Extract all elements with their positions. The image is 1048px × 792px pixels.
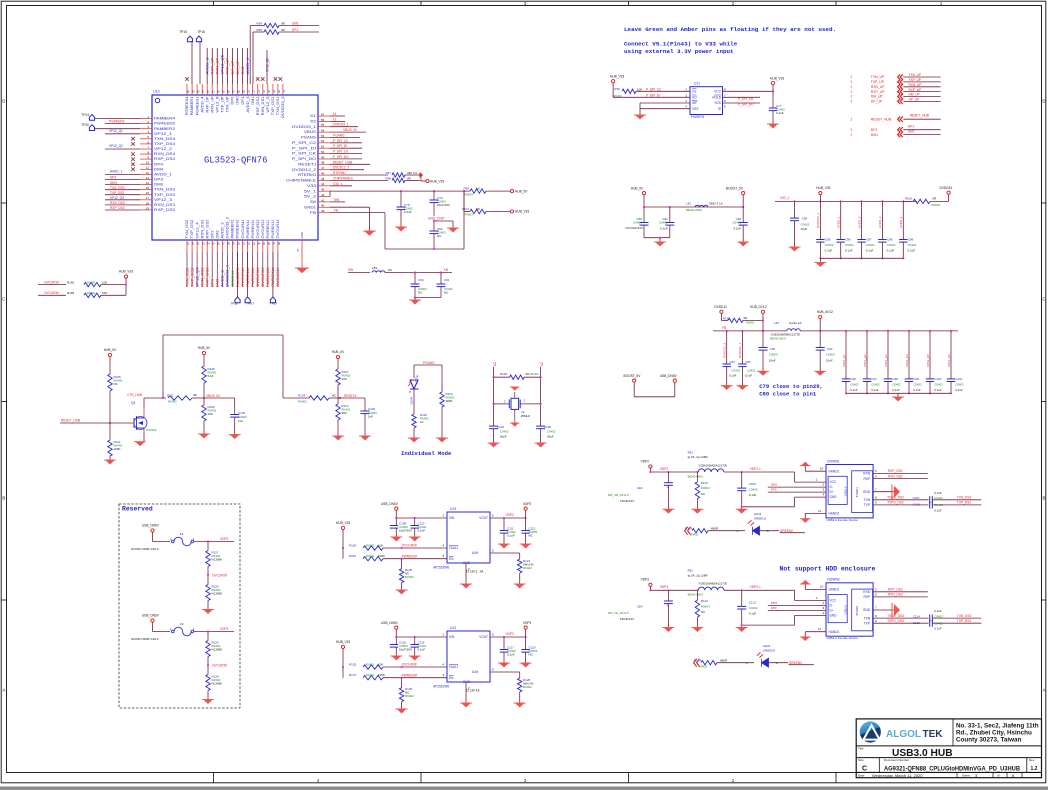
wire pin50 P_SPI_CK	[330, 153, 362, 155]
svg-text:DM3: DM3	[154, 183, 163, 187]
zone tick marks top and bottom	[213, 1, 215, 5]
svg-text:EN: EN	[449, 557, 454, 561]
svg-text:0.1uF: 0.1uF	[892, 388, 900, 392]
svg-text:OVCUR3#: OVCUR3#	[212, 663, 227, 667]
wire RXN RXP_DS2	[873, 473, 928, 475]
svg-text:A: A	[1043, 688, 1046, 693]
svg-text:RXP_DS3: RXP_DS3	[154, 208, 175, 212]
VOUT wire	[490, 636, 526, 638]
resistor R109	[203, 398, 205, 405]
svg-text:C0402: C0402	[845, 243, 854, 247]
svg-text:TEK: TEK	[923, 729, 944, 740]
svg-text:44: 44	[321, 182, 325, 186]
svg-text:X1: X1	[493, 362, 497, 366]
resistor R113	[337, 398, 339, 404]
svg-text:10K: 10K	[378, 663, 383, 667]
svg-text:C94: C94	[730, 360, 736, 364]
GND pin4 return wire	[795, 614, 827, 616]
svg-text:0.1uF: 0.1uF	[887, 248, 895, 252]
svg-text:OVCUR4#: OVCUR4#	[241, 267, 245, 287]
net stub DP	[768, 609, 826, 611]
svg-text:TXP_DS2: TXP_DS2	[190, 219, 194, 238]
svg-text:TXP_DS4: TXP_DS4	[154, 142, 175, 146]
svg-text:AG9321-QFN88_CPLUGtoHDMInVGA_P: AG9321-QFN88_CPLUGtoHDMInVGA_PD_U3HUB	[884, 765, 1020, 772]
svg-text:RXP: RXP	[863, 595, 870, 599]
capacitor C102	[230, 414, 239, 416]
no-connect X pin11	[131, 168, 135, 172]
ground under Q3 source	[143, 433, 145, 442]
capacitor C80	[643, 207, 645, 223]
svg-text:46: 46	[321, 172, 325, 176]
svg-text:OVCUR1#: OVCUR1#	[276, 267, 280, 287]
svg-text:VCC: VCC	[714, 89, 721, 93]
wires bottom pins to test points	[237, 252, 239, 297]
svg-text:TXP_DS2: TXP_DS2	[957, 501, 971, 505]
svg-text:HUB_5V: HUB_5V	[198, 346, 211, 350]
svg-text:Connect V5_1(Pin43) to V33 whi: Connect V5_1(Pin43) to V33 while	[624, 41, 738, 48]
svg-text:R0402: R0402	[366, 673, 375, 677]
svg-text:RXN_UP: RXN_UP	[909, 83, 922, 87]
capacitor C116	[395, 637, 397, 645]
test point TP20	[89, 125, 94, 131]
svg-text:NCIMF-NSMF-150-2: NCIMF-NSMF-150-2	[131, 637, 159, 641]
svg-text:FAULT: FAULT	[449, 546, 459, 550]
net stub DP	[768, 491, 826, 493]
svg-text:DP1: DP1	[292, 28, 298, 32]
svg-text:PGREEN4: PGREEN4	[185, 96, 189, 115]
svg-text:Individual Mode: Individual Mode	[401, 450, 452, 457]
svg-text:TXP_DS3: TXP_DS3	[957, 619, 971, 623]
svg-text:PGANG: PGANG	[423, 361, 435, 365]
capacitor C106	[741, 472, 743, 488]
resistor R121	[518, 559, 522, 573]
wire TP16 to top pin	[199, 41, 201, 84]
wire Q3 drain up to CTR_HUB	[143, 398, 145, 407]
svg-text:R0402: R0402	[405, 575, 414, 579]
ground right of C84	[434, 220, 453, 222]
svg-text:C106: C106	[749, 482, 757, 486]
svg-text:C0402: C0402	[934, 614, 943, 618]
capacitor C104	[489, 425, 498, 427]
svg-text:TXP_UP: TXP_UP	[221, 96, 225, 113]
wire pin56 X2 label	[330, 120, 345, 122]
transistor Q3 2N7002	[133, 418, 135, 428]
svg-text:SW: SW	[310, 200, 317, 204]
svg-text:FB2: FB2	[688, 569, 694, 573]
svg-text:DM0: DM0	[236, 96, 240, 104]
svg-text:0.1uF: 0.1uF	[660, 227, 668, 231]
svg-text:RXN: RXN	[863, 590, 870, 594]
wire pin55 DVDD33_1	[330, 126, 358, 128]
svg-text:2N7002: 2N7002	[146, 428, 157, 432]
svg-text:RXP_DS3: RXP_DS3	[888, 588, 903, 592]
svg-text:DP1: DP1	[908, 125, 914, 129]
svg-text:C100: C100	[935, 377, 942, 381]
svg-text:HUB_V33: HUB_V33	[610, 74, 624, 78]
svg-text:P_SPI_CK: P_SPI_CK	[292, 152, 317, 156]
capacitor C77	[772, 91, 774, 108]
svg-text:VIN: VIN	[449, 635, 455, 639]
svg-text:Q3: Q3	[131, 401, 135, 405]
wire RXP RXN_DS3	[873, 596, 928, 598]
wire pin46 RTERMJ to R97	[330, 174, 388, 176]
svg-text:C0402: C0402	[934, 382, 943, 386]
svg-text:HUB_V33: HUB_V33	[816, 186, 830, 190]
U10 top pins 58-77	[186, 84, 188, 95]
svg-text:100K: 100K	[378, 554, 385, 558]
svg-text:DM1: DM1	[292, 21, 299, 25]
svg-text:48: 48	[321, 161, 325, 165]
svg-text:42: 42	[321, 193, 325, 197]
svg-text:NCIMF-NSMF-150-2: NCIMF-NSMF-150-2	[131, 547, 159, 551]
svg-text:C0603: C0603	[826, 353, 835, 357]
svg-text:VDP2-1: VDP2-1	[750, 467, 761, 471]
net stub DM	[768, 486, 826, 488]
svg-text:0.1uF: 0.1uF	[749, 612, 757, 616]
svg-text:OVCUR2#: OVCUR2#	[261, 267, 265, 287]
capacitor C87 net AVDD_2	[861, 201, 863, 239]
capacitor C91	[440, 273, 442, 285]
svg-text:USB_DN5V: USB_DN5V	[660, 374, 678, 378]
svg-text:NC/0BK: NC/0BK	[212, 592, 223, 596]
svg-text:GND: GND	[863, 608, 871, 612]
svg-text:RESET_HUB: RESET_HUB	[871, 117, 892, 121]
svg-text:0.1uF: 0.1uF	[825, 248, 833, 252]
svg-text:R0603: R0603	[701, 486, 710, 490]
power node VDP2	[525, 510, 527, 518]
svg-text:2: 2	[851, 100, 853, 104]
svg-text:10K: 10K	[637, 87, 642, 91]
svg-text:C0402: C0402	[850, 382, 859, 386]
svg-text:41: 41	[321, 198, 325, 202]
bottom bus C85-C89	[820, 257, 903, 259]
svg-text:HOLD: HOLD	[712, 95, 722, 99]
capacitor C83	[794, 201, 796, 218]
svg-text:PGREEN2: PGREEN2	[236, 219, 240, 238]
svg-text:BOOST_5V: BOOST_5V	[726, 186, 744, 190]
svg-text:VOUT: VOUT	[479, 516, 488, 520]
svg-text:TXNG_DS3: TXNG_DS3	[887, 614, 904, 618]
capacitor C86 net AVDD_1	[840, 201, 842, 239]
svg-text:C104: C104	[497, 425, 504, 429]
svg-text:2: 2	[851, 95, 853, 99]
rail VDP3	[650, 589, 698, 591]
ground under R113	[337, 420, 339, 436]
ground GND1	[365, 231, 375, 236]
svg-text:10uF: 10uF	[769, 358, 776, 362]
svg-text:HAND2: HAND2	[829, 630, 840, 634]
capacitor C95	[738, 363, 746, 365]
svg-text:40: 40	[321, 204, 325, 208]
resistor R124 680R	[701, 661, 717, 665]
svg-text:Ig 3A, 2g 128R: Ig 3A, 2g 128R	[688, 573, 709, 577]
svg-text:VP12_E6: VP12_E6	[947, 354, 951, 367]
svg-text:19: 19	[146, 206, 150, 210]
ground under C95	[738, 386, 747, 390]
svg-text:VDP2: VDP2	[506, 513, 515, 517]
svg-text:RXN_DS2: RXN_DS2	[200, 219, 204, 238]
svg-text:RXN_DS3: RXN_DS3	[110, 201, 125, 205]
svg-text:ILIM: ILIM	[472, 551, 479, 555]
bottom bus C96-C101	[846, 392, 951, 394]
no-connect X pin8	[131, 152, 135, 156]
svg-text:TXN_DS2: TXN_DS2	[957, 496, 972, 500]
svg-text:0.1uF: 0.1uF	[729, 374, 737, 378]
svg-text:WP: WP	[692, 101, 697, 105]
ground band1 left	[659, 238, 661, 242]
VIN wire	[396, 636, 447, 638]
svg-text:VP12_3: VP12_3	[154, 198, 172, 202]
svg-text:PWREN2#: PWREN2#	[266, 267, 270, 287]
resistor R114 680R	[692, 529, 708, 533]
svg-text:11: 11	[818, 509, 821, 513]
svg-text:BEAD-0603: BEAD-0603	[770, 337, 786, 341]
svg-text:DVDD12_2: DVDD12_2	[723, 342, 727, 358]
svg-text:R108: R108	[500, 372, 507, 376]
svg-text:GREEN3: GREEN3	[763, 649, 776, 653]
svg-text:FB: FB	[334, 209, 338, 213]
svg-text:VP12_Q4: VP12_Q4	[195, 267, 199, 287]
svg-text:HUB_V33: HUB_V33	[336, 640, 350, 644]
svg-text:VDP3: VDP3	[641, 578, 650, 582]
svg-text:FB: FB	[722, 326, 726, 330]
svg-text:RXN_UP: RXN_UP	[216, 57, 220, 75]
crystal case ground bottom	[514, 409, 516, 423]
svg-text:AVDD_3: AVDD_3	[206, 58, 210, 75]
svg-text:D: D	[1042, 99, 1045, 104]
svg-text:1uF: 1uF	[368, 415, 373, 419]
size/doc/rev dividers	[878, 758, 880, 773]
svg-text:TXN_DS3: TXN_DS3	[110, 186, 125, 190]
svg-text:Size: Size	[858, 758, 864, 762]
svg-text:14: 14	[146, 181, 150, 185]
svg-text:PGREEN3: PGREEN3	[154, 122, 175, 126]
svg-text:VDP2: VDP2	[641, 459, 650, 463]
wire HOLD P_SPI_CK	[723, 96, 761, 98]
svg-text:D+: D+	[830, 490, 834, 494]
svg-text:C80 close to pin1: C80 close to pin1	[759, 391, 817, 398]
capacitor C113	[741, 590, 743, 606]
svg-text:USB2.0: USB2.0	[844, 604, 848, 614]
svg-text:DIP_CE_5X11.5: DIP_CE_5X11.5	[608, 611, 629, 615]
ground under C103	[361, 436, 370, 440]
svg-text:43: 43	[321, 188, 325, 192]
svg-text:0R: 0R	[407, 176, 411, 180]
svg-text:R118: R118	[349, 544, 356, 548]
resistor R135	[401, 559, 403, 569]
wire X2 down	[540, 367, 542, 426]
IC U13 body	[447, 631, 490, 682]
wire SO row	[613, 96, 690, 98]
bottom return wire	[385, 248, 464, 250]
power node HUB_DV12	[761, 310, 764, 313]
svg-text:C0402: C0402	[934, 621, 943, 625]
svg-text:RXP_DS2: RXP_DS2	[206, 267, 210, 287]
capacitor C101 net VP12_E6	[950, 331, 952, 379]
svg-text:RXP: RXP	[863, 477, 870, 481]
svg-text:V33_1: V33_1	[780, 196, 789, 200]
svg-text:DM2: DM2	[771, 483, 778, 487]
svg-text:DP3: DP3	[771, 606, 777, 610]
ground under R110	[441, 407, 443, 438]
test point TP15	[187, 36, 192, 42]
resistor R110	[440, 392, 444, 407]
svg-text:R0402: R0402	[690, 533, 699, 537]
svg-text:C0603: C0603	[801, 222, 810, 226]
capacitor C109	[395, 518, 397, 526]
svg-text:County 30273, Taiwan: County 30273, Taiwan	[956, 736, 1021, 743]
svg-text:U11: U11	[694, 82, 700, 86]
FAULT wire net OVCUR3#	[383, 666, 447, 668]
ground under C93	[816, 371, 825, 375]
svg-text:USB3-A Female Device: USB3-A Female Device	[826, 518, 858, 522]
ground under C105	[536, 443, 545, 447]
svg-text:P_SPI_C2: P_SPI_C2	[292, 141, 316, 145]
svg-text:C96: C96	[851, 377, 857, 381]
EN wire net PWREN2#	[383, 558, 447, 560]
wire PGANG to LED1 and R110	[414, 364, 442, 366]
svg-text:5V_2: 5V_2	[304, 195, 316, 199]
svg-text:TXN_UP: TXN_UP	[909, 73, 922, 77]
svg-text:RXN_DS3: RXN_DS3	[888, 593, 903, 597]
svg-text:R127: R127	[349, 673, 357, 677]
svg-text:ILIM: ILIM	[472, 670, 479, 674]
svg-text:GND: GND	[300, 231, 304, 239]
svg-text:CS: CS	[692, 89, 696, 93]
svg-text:C98: C98	[893, 377, 899, 381]
svg-text:P_SPI_DO: P_SPI_DO	[292, 157, 316, 161]
wire pin57 X1 label	[330, 115, 345, 117]
GND pin4 return wire	[795, 496, 827, 498]
svg-text:HUB_DV12: HUB_DV12	[750, 305, 767, 309]
svg-text:39: 39	[321, 209, 325, 213]
ground under C104	[489, 443, 498, 447]
svg-text:TXN_UP: TXN_UP	[871, 75, 885, 79]
ground VP12 caps	[897, 393, 899, 397]
svg-text:HUB_V33: HUB_V33	[430, 179, 444, 183]
svg-text:0.1uF: 0.1uF	[955, 388, 963, 392]
svg-text:AVDD_4: AVDD_4	[899, 216, 903, 228]
svg-text:AVDD_4: AVDD_4	[200, 96, 204, 112]
svg-text:HAND2: HAND2	[829, 512, 840, 516]
bottom wire C90 C91	[415, 297, 441, 299]
svg-text:DM1: DM1	[241, 66, 245, 75]
wire SW pin41	[330, 201, 345, 203]
svg-text:R0603: R0603	[464, 213, 473, 217]
svg-text:C99: C99	[914, 377, 920, 381]
svg-text:Reserved: Reserved	[122, 506, 153, 513]
svg-text:USB_DN5V: USB_DN5V	[381, 502, 399, 506]
svg-text:Rd., Zhubei City, Hsinchu: Rd., Zhubei City, Hsinchu	[956, 729, 1032, 736]
svg-text:OVCUR2J: OVCUR2J	[261, 219, 265, 238]
svg-text:C0402: C0402	[659, 220, 668, 224]
capacitor C94	[723, 363, 731, 365]
wire R184 to HUB_DV12	[743, 319, 763, 321]
svg-text:VP12_1: VP12_1	[154, 132, 172, 136]
ground under C109	[392, 537, 401, 541]
svg-text:X2: X2	[310, 120, 316, 124]
svg-text:9T09R1: 9T09R1	[855, 605, 859, 615]
svg-text:0.1uF: 0.1uF	[934, 627, 942, 631]
svg-text:R0402: R0402	[523, 566, 532, 570]
wire pin3 to TP20	[95, 128, 140, 130]
capacitor C98 net VP12_E3	[887, 331, 889, 379]
resistor R120	[206, 585, 210, 601]
svg-text:R0603: R0603	[931, 203, 940, 207]
svg-text:DP2: DP2	[210, 230, 214, 238]
svg-text:52: 52	[321, 139, 325, 143]
svg-text:VP12_E3: VP12_E3	[884, 354, 888, 367]
svg-text:10K: 10K	[378, 544, 383, 548]
resistor R117	[207, 542, 209, 551]
svg-text:DM2: DM2	[216, 278, 220, 287]
svg-text:L84: L84	[774, 321, 779, 325]
svg-text:0.1uF: 0.1uF	[507, 534, 515, 538]
svg-text:TXP: TXP	[864, 621, 870, 625]
svg-text:2: 2	[851, 75, 853, 79]
capacitor C85 net DVDD33_1	[819, 201, 821, 239]
U10 GND pin 77 stub	[301, 240, 303, 268]
wire R96 to CS	[636, 90, 690, 92]
test point TP16	[196, 36, 201, 42]
ground under C77	[769, 124, 778, 128]
svg-text:R97: R97	[385, 171, 391, 175]
svg-text:USB3-A Female Device: USB3-A Female Device	[826, 636, 858, 640]
svg-text:USB_DN5V: USB_DN5V	[381, 621, 399, 625]
svg-text:VP12_2: VP12_2	[154, 147, 172, 151]
svg-text:TXPG_DS3: TXPG_DS3	[887, 619, 904, 623]
power node DVDD33	[930, 200, 949, 202]
svg-text:10K: 10K	[342, 377, 347, 381]
svg-text:RXN_DS2: RXN_DS2	[888, 474, 903, 478]
svg-text:RXP_DS2: RXP_DS2	[205, 219, 209, 238]
svg-text:HUB_V33: HUB_V33	[336, 521, 350, 525]
svg-text:49: 49	[321, 155, 325, 159]
svg-text:DP1: DP1	[241, 96, 245, 104]
IC U11 FM25F01 body	[690, 87, 723, 115]
svg-text:GND: GND	[463, 561, 471, 565]
svg-text:10K: 10K	[102, 280, 107, 284]
date row dividers	[956, 772, 958, 777]
svg-text:GL3523-QFN76: GL3523-QFN76	[204, 156, 267, 166]
wire GND1 pin40 to ground	[330, 206, 370, 208]
wire SCK P_SPI_DO	[723, 102, 761, 104]
wire TXN with series cap C107	[873, 499, 928, 501]
svg-text:0.1uF: 0.1uF	[866, 248, 874, 252]
resistor R99 to HUB_5V	[464, 190, 470, 192]
svg-text:A: A	[2, 688, 5, 693]
svg-text:R122: R122	[701, 599, 709, 603]
svg-text:10uF/10V: 10uF/10V	[437, 203, 450, 207]
svg-text:RXN_UP: RXN_UP	[210, 96, 214, 113]
capacitor CE CE4 electrolytic	[667, 590, 669, 601]
svg-text:LEDR: LEDR	[410, 396, 414, 405]
svg-text:TXP_DS3: TXP_DS3	[154, 193, 175, 197]
power node HUB_V33 band1	[819, 195, 821, 202]
svg-text:HAND1: HAND1	[829, 588, 840, 592]
VIN wire	[396, 517, 447, 519]
svg-text:BEAD-0603: BEAD-0603	[688, 593, 704, 597]
svg-text:AVDD_2: AVDD_2	[857, 216, 861, 228]
svg-text:NC/0BK: NC/0BK	[212, 558, 223, 562]
HAND2 chassis ground	[805, 512, 826, 514]
svg-text:VP12_E5: VP12_E5	[926, 354, 930, 367]
svg-text:RTERMJ: RTERMJ	[333, 171, 346, 175]
svg-text:B: B	[2, 496, 5, 501]
wire pin44 V33_1	[330, 185, 352, 187]
svg-text:C0402: C0402	[866, 243, 875, 247]
svg-text:C101: C101	[956, 377, 963, 381]
